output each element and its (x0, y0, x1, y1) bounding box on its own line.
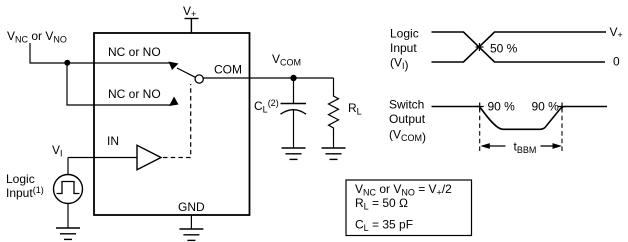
upper switch contact arrowhead (169, 62, 179, 71)
DUT box U1 (94, 33, 250, 215)
lower switch contact arrowhead (169, 97, 179, 107)
svg-text:V+: V+ (610, 25, 623, 40)
wire to lower NC/NO terminal (67, 63, 172, 105)
tBBM dimension arrow right (541, 143, 563, 149)
ground under CL (282, 148, 306, 159)
svg-text:Input: Input (390, 41, 417, 55)
svg-text:(VCOM): (VCOM) (389, 128, 426, 145)
capacitor CL (281, 78, 307, 148)
svg-text:VI: VI (52, 143, 63, 159)
switch blade S1 (177, 68, 195, 77)
buffer driver A1 (137, 145, 161, 169)
ground under source (56, 228, 80, 239)
wire VI corner to source (67, 158, 69, 175)
wire VI to buffer input (68, 157, 137, 159)
logic input waveform falling trace (432, 32, 606, 62)
label Switch Output (VCOM) (389, 98, 426, 145)
dashed marker line left (479, 108, 481, 154)
pulse source V1 (54, 175, 83, 204)
svg-text:VCOM: VCOM (272, 52, 301, 68)
svg-text:VNC or VNO = V+/2: VNC or VNO = V+/2 (355, 182, 452, 198)
svg-text:90 %: 90 % (488, 100, 516, 114)
conditions note box (346, 180, 472, 236)
ground under GND pin (179, 229, 203, 240)
node junction on NC/NO feed (64, 60, 70, 66)
wire source to ground (67, 204, 69, 229)
wire COM to load node (203, 77, 334, 79)
label Logic Input (VI) for waveform (390, 27, 419, 73)
switch output waveform (432, 107, 608, 130)
svg-text:tBBM: tBBM (514, 140, 537, 156)
ground under RL (322, 148, 346, 159)
svg-text:50 %: 50 % (490, 42, 518, 56)
svg-text:IN: IN (107, 134, 119, 148)
wire GND pin to ground (190, 215, 192, 229)
svg-text:RL = 50 Ω: RL = 50 Ω (355, 196, 408, 212)
dashed marker line right (561, 108, 563, 154)
svg-text:NC or NO: NC or NO (108, 45, 161, 59)
svg-text:Logic: Logic (6, 172, 35, 186)
svg-text:CL(2): CL(2) (254, 98, 279, 115)
wire from VNC/VNO label (30, 43, 172, 63)
svg-text:NC or NO: NC or NO (108, 87, 161, 101)
svg-text:VNC or VNO: VNC or VNO (7, 29, 67, 45)
logic input waveform rising trace (432, 32, 607, 62)
svg-text:CL = 35 pF: CL = 35 pF (355, 218, 413, 234)
50% crossing tick (476, 46, 484, 48)
V+ supply terminal (183, 4, 199, 33)
svg-text:V+: V+ (183, 4, 196, 19)
resistor RL (329, 78, 339, 148)
tBBM dimension arrow left (480, 143, 505, 149)
right 90% tick (558, 103, 566, 111)
svg-text:90 %: 90 % (532, 100, 560, 114)
svg-text:RL: RL (348, 101, 362, 117)
node VCOM junction (290, 75, 296, 81)
dashed control line to switch (163, 84, 191, 158)
svg-text:Output: Output (389, 112, 426, 126)
left 90% tick (476, 103, 484, 111)
svg-text:GND: GND (178, 200, 205, 214)
svg-text:Switch: Switch (389, 98, 424, 112)
svg-text:(VI): (VI) (390, 56, 409, 73)
svg-text:Logic: Logic (390, 27, 419, 41)
switch pole circle (195, 75, 203, 83)
svg-text:COM: COM (214, 63, 242, 77)
svg-text:Input(1): Input(1) (6, 185, 44, 200)
svg-text:0: 0 (613, 55, 620, 69)
